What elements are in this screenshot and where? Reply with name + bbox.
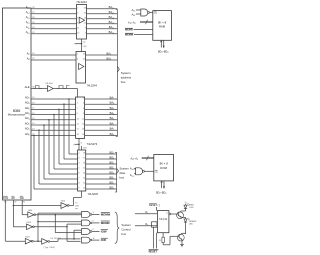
svg-text:RAM: RAM: [159, 25, 166, 29]
note text at 245 G pin: [75, 203, 79, 210]
svg-text:Microprocessor: Microprocessor: [8, 113, 26, 117]
svg-text:13: 13: [77, 32, 79, 34]
svg-text:System: System: [120, 167, 130, 171]
wires BD7-BD0 outputs: [86, 154, 117, 189]
svg-text:LED: LED: [189, 224, 194, 226]
svg-text:IO/M: IO/M: [3, 197, 8, 200]
svg-text:(19): (19): [83, 147, 87, 149]
buffer U2 74LS244: [76, 0, 87, 39]
svg-text:( Typ. 7404 ): ( Typ. 7404 ): [44, 247, 56, 249]
red LED: [184, 204, 194, 212]
svg-text:11: 11: [77, 27, 79, 29]
svg-text:IOR: IOR: [101, 238, 107, 242]
svg-text:14: 14: [83, 173, 85, 175]
label MEMR: [101, 221, 111, 225]
latch G enable stub: [72, 138, 82, 150]
svg-text:18: 18: [77, 134, 79, 136]
svg-text:RD: RD: [12, 197, 16, 200]
label IOW: [101, 230, 108, 234]
svg-text:19: 19: [82, 134, 84, 136]
label IOR: [101, 238, 108, 242]
latch U4 74LS373: [76, 97, 85, 138]
8085 bottom pins IO/M RD WR labels: [3, 196, 26, 204]
RAM MEMW wire: [125, 33, 153, 36]
wire led to Q1: [181, 210, 185, 212]
buffer U3 74LS244: [76, 52, 97, 88]
svg-text:74LS373: 74LS373: [87, 142, 98, 146]
8085 pin ALE label: [25, 85, 36, 89]
data bus bracket: [115, 153, 119, 193]
8085 pins AD7-AD0 labels: [25, 95, 36, 136]
svg-text:16: 16: [83, 163, 85, 165]
svg-text:13: 13: [77, 118, 79, 120]
svg-text:16: 16: [84, 12, 86, 14]
svg-text:A12–A0: A12–A0: [131, 158, 138, 162]
label system data bus: [120, 167, 130, 180]
transistor Q2: [170, 233, 186, 245]
8085 address pins A15-A10 labels: [26, 5, 36, 35]
svg-text:4: 4: [77, 59, 78, 61]
svg-text:3: 3: [78, 158, 79, 160]
wire IO/M to mem gates: [37, 213, 81, 241]
svg-text:14: 14: [77, 124, 79, 126]
inverter 1/6 74LS04: [33, 238, 62, 244]
svg-text:System: System: [121, 71, 131, 75]
svg-text:2: 2: [77, 7, 78, 9]
svg-text:2: 2: [77, 54, 78, 56]
label MEMW: [101, 213, 111, 217]
svg-text:12: 12: [83, 183, 85, 185]
svg-text:DIR: DIR: [75, 205, 79, 207]
svg-text:3: 3: [93, 212, 94, 214]
gate 74LS32 MEMR: [82, 220, 100, 226]
svg-text:CE: CE: [155, 172, 159, 174]
svg-text:MEMR: MEMR: [125, 29, 133, 32]
label system address bus: [121, 71, 132, 84]
wires BA7-BA0 outputs: [85, 99, 118, 135]
svg-text:9: 9: [78, 188, 79, 190]
svg-text:17: 17: [77, 129, 79, 131]
svg-text:14: 14: [84, 17, 86, 19]
svg-text:74LS04: 74LS04: [45, 83, 53, 85]
wires BA9 BA8 outputs: [86, 51, 118, 61]
inverter 7404 IO/M: [25, 237, 33, 245]
svg-text:74LS244: 74LS244: [76, 0, 87, 4]
svg-text:4: 4: [78, 163, 79, 165]
gate 74LS32 MEMW: [82, 212, 100, 218]
svg-text:11: 11: [93, 238, 95, 240]
8085 microprocessor U1: [3, 8, 32, 200]
buffer enable pins 1,19 wire: [72, 39, 86, 52]
svg-text:6: 6: [83, 108, 84, 110]
Q2 emitter ground: [180, 240, 184, 247]
svg-text:74LS244: 74LS244: [87, 84, 98, 88]
ROM address bus arrow A12-A0: [131, 156, 154, 161]
inverter 7404 WR: [28, 210, 36, 218]
svg-text:bus: bus: [121, 80, 126, 84]
inverter 7404 for 245 DIR: [13, 201, 73, 209]
labels BA7-BA0: [110, 95, 115, 136]
svg-text:IOW: IOW: [101, 230, 107, 234]
transistor Q1: [176, 211, 183, 219]
svg-text:9: 9: [83, 113, 84, 115]
IO/M stub wire: [5, 200, 25, 241]
svg-text:18: 18: [83, 153, 85, 155]
svg-text:6: 6: [77, 17, 78, 19]
wires A9 A8 to buffer2: [31, 55, 76, 60]
ROM BD7-BD0 label: [156, 191, 166, 195]
svg-text:A12–A0: A12–A0: [128, 22, 135, 26]
WR stub wire: [22, 200, 28, 215]
transceiver U5 74LS245: [78, 146, 87, 191]
svg-text:ROM: ROM: [160, 166, 167, 170]
svg-text:17: 17: [83, 158, 85, 160]
svg-text:WR: WR: [20, 197, 24, 200]
pushbutton box: [152, 222, 158, 227]
Vcc stub: [185, 202, 188, 205]
wire RD-inv to gate MEMR: [34, 224, 81, 241]
svg-text:8: 8: [77, 22, 78, 24]
svg-text:ALE: ALE: [25, 85, 30, 89]
svg-text:8085: 8085: [13, 109, 21, 113]
svg-text:address: address: [121, 76, 132, 80]
svg-text:(1): (1): [83, 42, 86, 44]
svg-text:bus: bus: [120, 176, 125, 180]
svg-text:MEMR: MEMR: [101, 221, 111, 225]
wires A15-A10 to buffer: [31, 9, 77, 34]
reset wire to chip: [156, 207, 158, 211]
svg-text:8: 8: [78, 183, 79, 185]
chip Q output: [166, 212, 176, 215]
wires AD7-AD0 to latch: [31, 99, 76, 135]
svg-text:18: 18: [84, 7, 86, 9]
gate 74LS32 IOR: [82, 237, 100, 243]
245 bottom pin stub: [74, 191, 82, 206]
svg-text:2: 2: [83, 98, 84, 100]
RESET label: [149, 204, 160, 207]
manual reset wires: [154, 227, 157, 248]
labels BD7-BD0: [110, 150, 115, 190]
svg-text:74LC14: 74LC14: [159, 219, 168, 221]
svg-text:15: 15: [83, 168, 85, 170]
ROM U7 8Kx8: [154, 155, 174, 181]
green LED: [181, 217, 197, 234]
manual reset label: [149, 250, 159, 254]
8085 pins A9 A8 labels: [27, 51, 36, 61]
svg-text:(19): (19): [83, 46, 87, 48]
svg-text:bus: bus: [122, 232, 127, 236]
nand gate ROM chip select: [130, 168, 154, 178]
svg-text:74LS245: 74LS245: [88, 192, 99, 196]
ALE wire with pulse waveforms and buffer: [31, 83, 78, 97]
svg-text:8: 8: [77, 113, 78, 115]
RAM BD7-BD0 label: [158, 51, 168, 55]
svg-text:5: 5: [83, 103, 84, 105]
svg-text:6: 6: [93, 221, 94, 223]
labels BA15-BA10: [109, 5, 115, 35]
wire inverted IO/M to io gates: [50, 230, 82, 241]
resistor R: [159, 233, 170, 245]
RAM data stub arrows: [161, 40, 165, 47]
svg-text:7: 7: [77, 108, 78, 110]
address bus bracket: [116, 10, 120, 137]
control bus bracket: [115, 212, 119, 244]
svg-text:4: 4: [77, 103, 78, 105]
wires BA15-BA10 outputs: [87, 9, 118, 34]
ROM data stub arrows: [161, 181, 165, 188]
svg-text:4: 4: [77, 12, 78, 14]
wire WR-inv to gate MEMW: [36, 214, 82, 233]
svg-text:2: 2: [78, 153, 79, 155]
inverter 7404 RD: [26, 222, 34, 230]
AD bus tap junctions and verticals to 74LS245: [33, 98, 77, 189]
svg-text:12: 12: [84, 22, 86, 24]
svg-text:CS: CS: [154, 13, 158, 15]
nand gate RAM chip select: [132, 9, 153, 17]
svg-text:11: 11: [83, 188, 85, 190]
svg-text:12: 12: [82, 118, 84, 120]
svg-text:RESET: RESET: [149, 251, 158, 254]
svg-text:9: 9: [85, 27, 86, 29]
RAM MEMR wire: [125, 28, 153, 31]
svg-text:15: 15: [82, 124, 84, 126]
svg-text:System: System: [122, 223, 132, 227]
svg-text:6: 6: [78, 173, 79, 175]
svg-text:3: 3: [77, 98, 78, 100]
svg-text:7: 7: [78, 178, 79, 180]
reset chip U8: [157, 211, 169, 233]
svg-text:data: data: [120, 171, 126, 175]
gate 74LS32 IOW: [82, 229, 100, 235]
svg-text:MEMW: MEMW: [125, 34, 134, 37]
RAM U6 8Kx8: [153, 11, 172, 41]
svg-text:Control: Control: [122, 228, 131, 232]
svg-text:18: 18: [83, 54, 85, 56]
svg-text:5: 5: [78, 168, 79, 170]
svg-text:8: 8: [93, 229, 94, 231]
svg-text:RESET ( ): RESET ( ): [149, 204, 160, 207]
R1 input: [135, 212, 157, 215]
label system control bus: [122, 223, 132, 236]
svg-text:13: 13: [83, 178, 85, 180]
svg-text:MEMW: MEMW: [101, 213, 111, 217]
R2 input: [135, 224, 157, 227]
RAM address bus arrow A12-A0: [128, 20, 153, 25]
svg-text:16: 16: [83, 59, 85, 61]
svg-text:16: 16: [82, 129, 84, 131]
RD stub wire: [13, 200, 27, 227]
svg-text:7: 7: [85, 32, 86, 34]
svg-text:LED: LED: [190, 207, 195, 209]
